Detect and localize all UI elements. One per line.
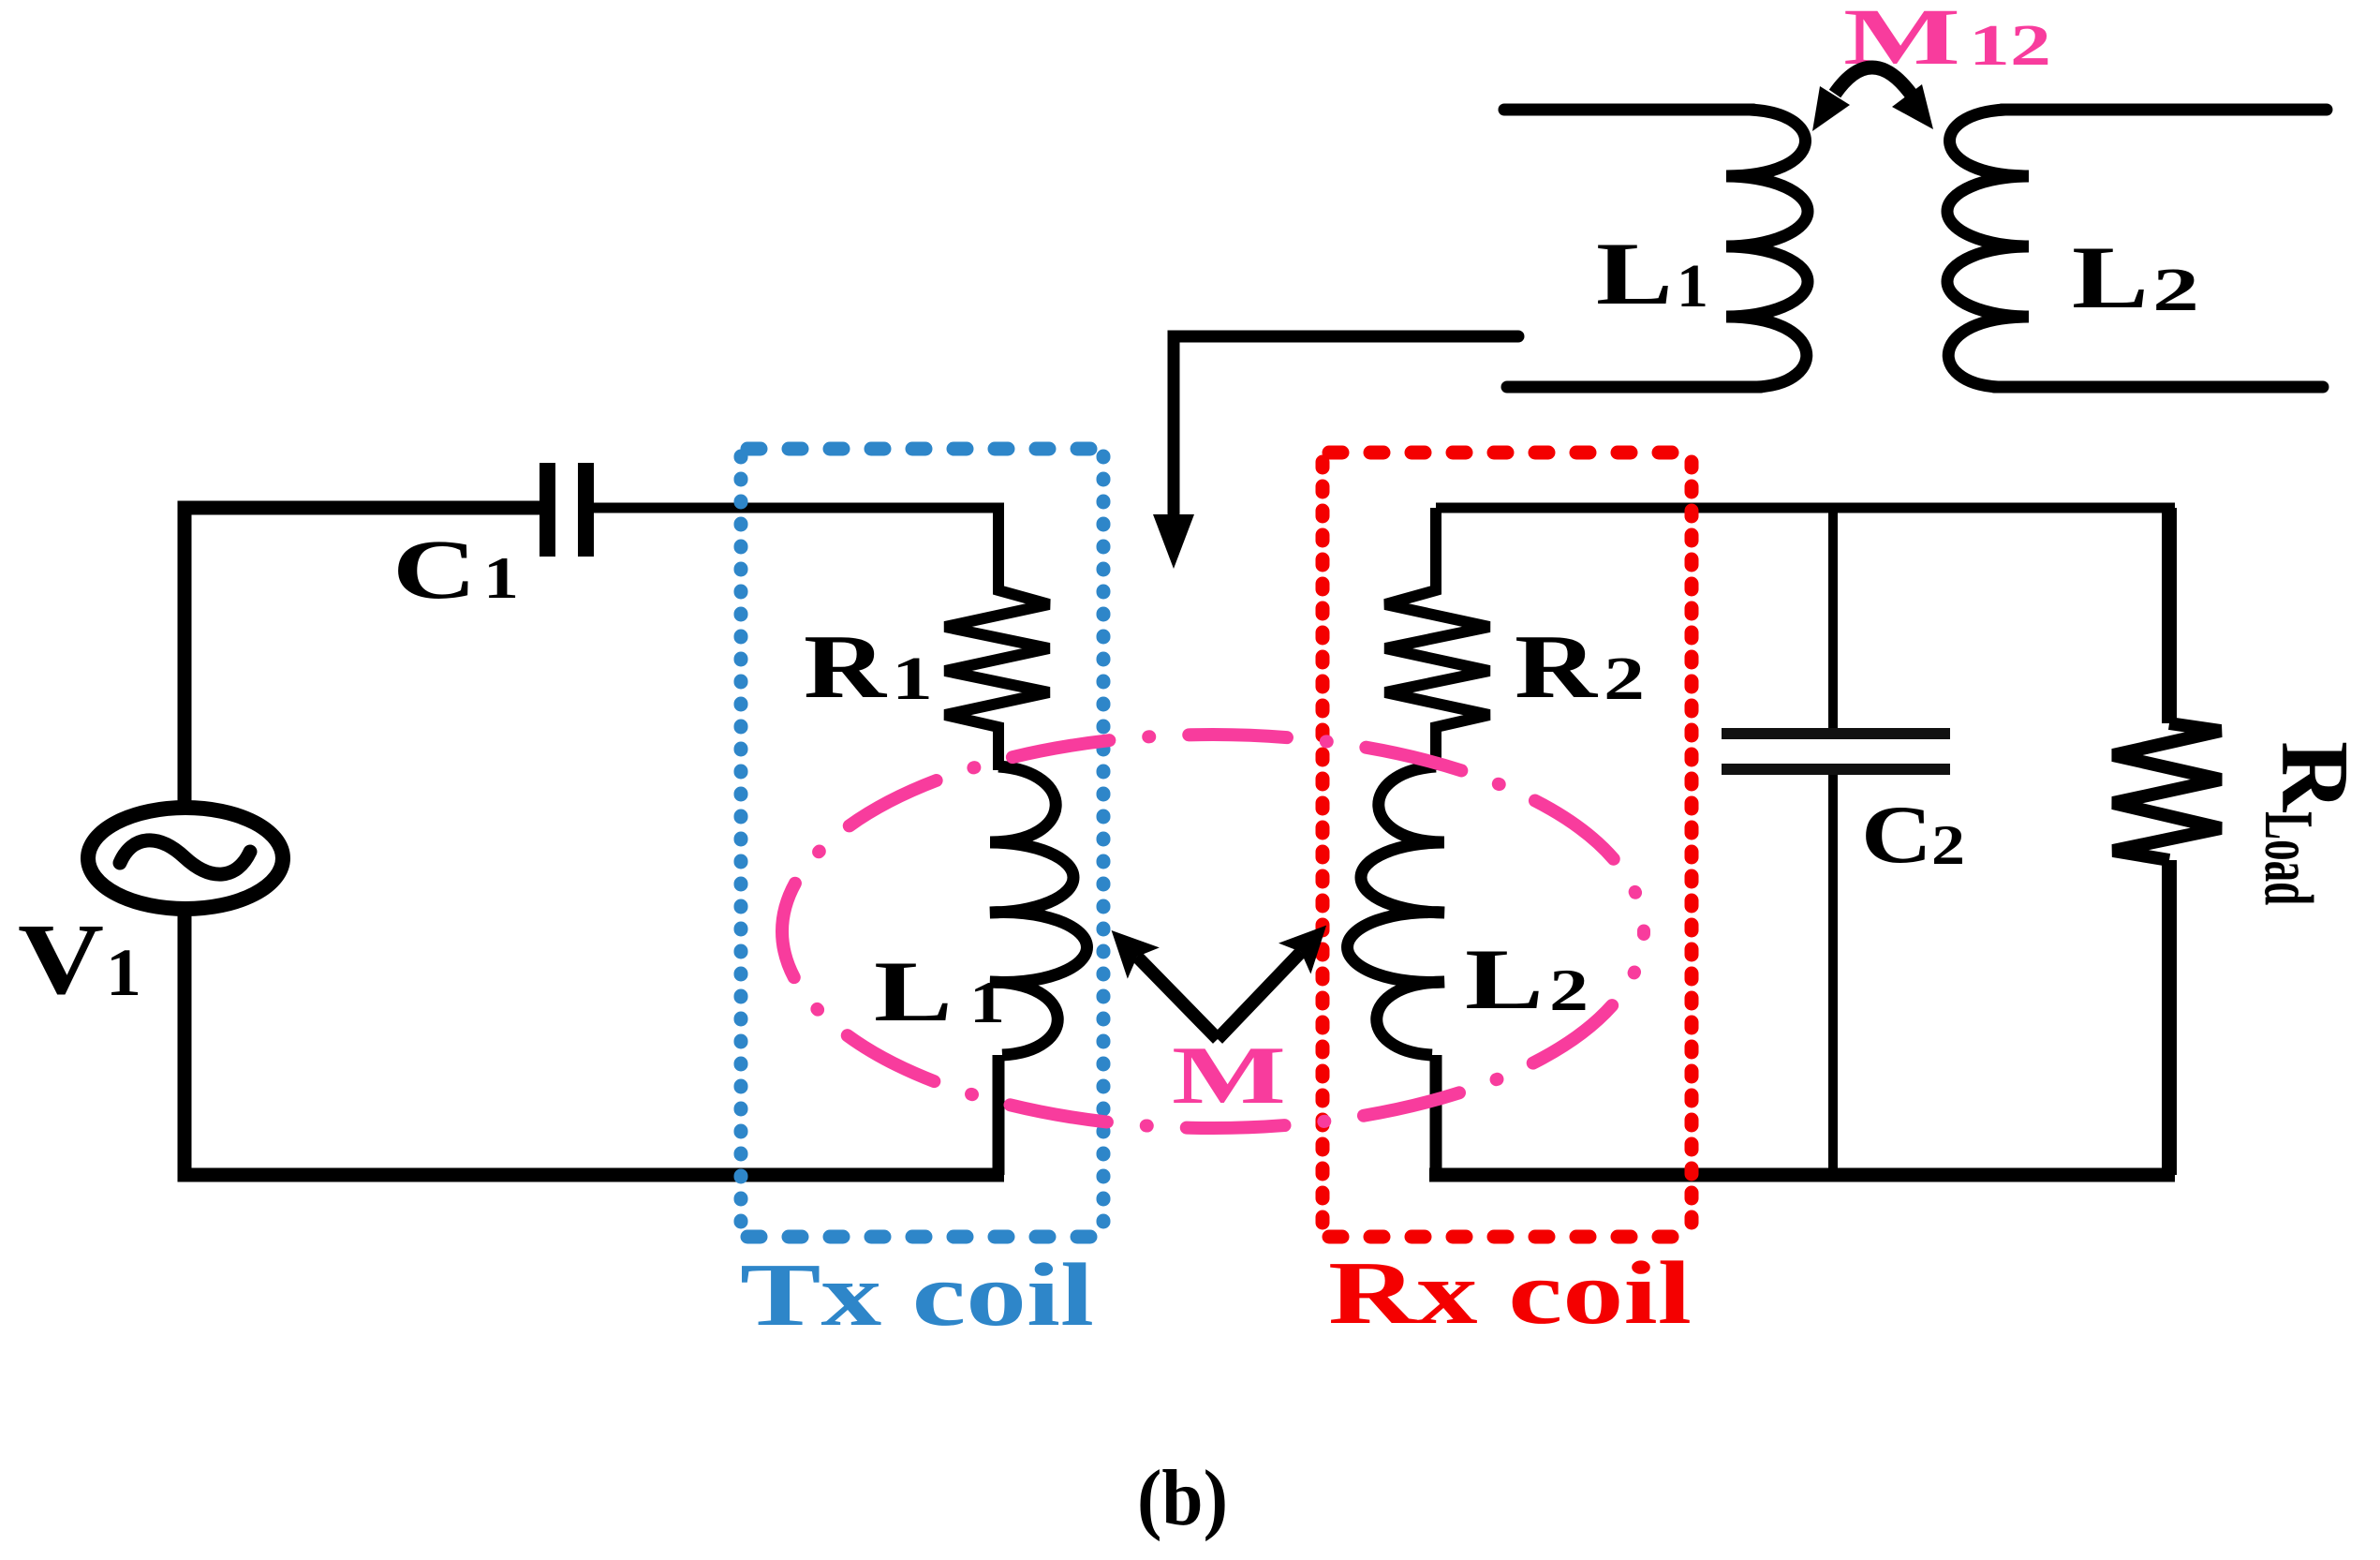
inductor L2 (Rx coil) [1348, 766, 1444, 1055]
svg-text:(b): (b) [1137, 1454, 1228, 1542]
wire L2 transformer top terminal [2002, 104, 2327, 116]
M12 coupling arrow [1835, 67, 1911, 94]
svg-text:V: V [18, 904, 104, 1016]
wire L1 transformer bottom terminal [1507, 381, 1761, 394]
svg-text:1: 1 [483, 544, 519, 611]
arrows to coils (M) [1137, 957, 1218, 1039]
svg-text:C: C [1861, 790, 1932, 881]
inductor L1 (transformer, top) [1726, 110, 1808, 387]
wire C1 to R1 [594, 503, 1004, 513]
Tx coil box (blue dashed) [741, 449, 1103, 1237]
callout arrow from transformer to circuit [1174, 336, 1518, 513]
wire L2 transformer bottom terminal [1994, 381, 2323, 394]
wire L1 transformer top terminal [1504, 104, 1753, 116]
inductor L1 (Tx coil) [990, 766, 1087, 1055]
svg-text:1: 1 [1677, 252, 1708, 320]
wire L1 bottom stub [993, 1055, 1005, 1175]
svg-text:1: 1 [892, 645, 933, 713]
wire left vertical bottom [185, 910, 1004, 1175]
svg-text:1: 1 [969, 969, 1005, 1035]
wire right vertical top [2162, 508, 2177, 723]
svg-text:2: 2 [1549, 957, 1589, 1023]
svg-text:R: R [1515, 617, 1598, 717]
wire L2 bottom stub and Rx bottom wire [1430, 1055, 1442, 1171]
wire Rx top horizontal [1436, 503, 2175, 513]
svg-text:2: 2 [2152, 256, 2199, 324]
voltage source V1 [88, 808, 283, 909]
capacitor C2 wire top [1828, 508, 1838, 734]
resistor RLoad [2113, 723, 2221, 860]
svg-text:L: L [874, 943, 953, 1039]
wire left vertical top [185, 508, 540, 807]
svg-text:2: 2 [1931, 814, 1965, 876]
svg-text:L: L [1465, 931, 1544, 1027]
svg-text:12: 12 [1969, 14, 2051, 78]
svg-text:M: M [1172, 1031, 1286, 1122]
svg-text:Rx coil: Rx coil [1328, 1242, 1692, 1343]
capacitor C2 wire bottom [1828, 775, 1838, 1175]
svg-text:Tx coil: Tx coil [740, 1244, 1094, 1345]
svg-text:C: C [392, 524, 477, 617]
inductor L2 (transformer, top) [1947, 110, 2029, 387]
resistor R1 [945, 508, 1049, 770]
Rx coil box (red dashed) [1323, 453, 1692, 1237]
resistor R2 [1385, 508, 1489, 770]
capacitor C2 [1722, 728, 1950, 739]
svg-text:L: L [1596, 224, 1673, 323]
coupling ellipse M (magenta dash-dot) [782, 735, 1644, 1128]
svg-text:1: 1 [106, 935, 141, 1010]
wire right vertical bottom [2162, 860, 2177, 1175]
svg-text:2: 2 [1604, 645, 1645, 713]
capacitor C1 [540, 463, 555, 557]
svg-text:R: R [804, 617, 887, 717]
svg-text:L: L [2072, 228, 2149, 327]
